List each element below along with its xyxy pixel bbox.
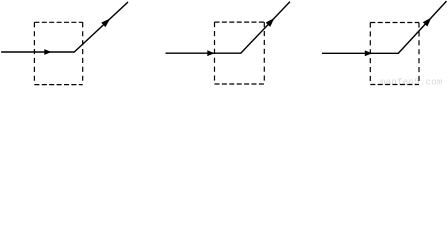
- diagram C : refracted ray (diagonal wire): [398, 1, 447, 54]
- diagram B : refracted ray (diagonal wire): [241, 2, 291, 54]
- diagram B : arrowhead on refracted ray: [266, 16, 277, 27]
- diagram B : arrowhead on incident ray: [207, 50, 214, 56]
- diagram C : arrowhead on refracted ray: [423, 15, 434, 26]
- diagram B : incident ray (horizontal wire): [166, 52, 242, 54]
- diagram C : dashed box: [370, 23, 419, 85]
- diagram C : arrowhead on incident ray: [365, 50, 372, 56]
- diagram C : incident ray (horizontal wire): [322, 52, 399, 54]
- diagram A : incident ray (horizontal wire): [1, 51, 74, 53]
- diagram A : dashed box: [34, 22, 82, 84]
- diagram B : dashed box: [215, 22, 265, 84]
- diagram A : arrowhead on refracted ray: [101, 16, 112, 27]
- diagram A : arrowhead on incident ray: [44, 49, 51, 55]
- diagram A : refracted ray (diagonal wire): [74, 2, 128, 52]
